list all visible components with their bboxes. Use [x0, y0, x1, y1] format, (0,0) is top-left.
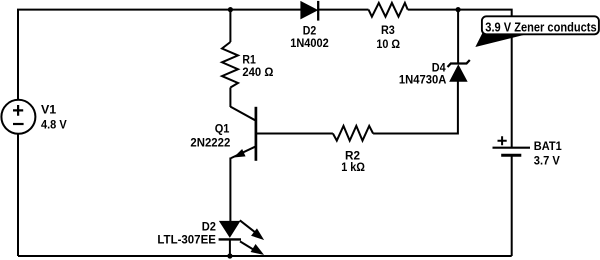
node junction top zener	[456, 7, 461, 12]
wire bottom bus	[18, 255, 512, 257]
diode D2	[290, 1, 329, 50]
svg-text:V1: V1	[41, 102, 56, 116]
callout 3.9 V Zener conducts	[476, 16, 599, 46]
voltage source V1	[1, 100, 67, 134]
LED D2	[157, 220, 263, 255]
svg-text:1N4002: 1N4002	[290, 36, 329, 50]
svg-text:4.8 V: 4.8 V	[41, 118, 67, 132]
transistor Q1	[190, 107, 256, 161]
zener diode D4	[399, 60, 470, 86]
wire top bus to zener D4	[457, 10, 459, 64]
node junction bottom LED	[227, 253, 232, 258]
svg-text:1 kΩ: 1 kΩ	[341, 160, 365, 174]
svg-text:Q1: Q1	[215, 122, 230, 136]
wire LED to bottom bus	[229, 239, 231, 256]
resistor R2	[333, 126, 373, 174]
svg-text:R3: R3	[381, 23, 395, 37]
wire Q1 base to R2	[256, 133, 333, 135]
svg-text:10 Ω: 10 Ω	[376, 37, 400, 51]
wire battery bottom	[511, 155, 513, 256]
wire between D2 and R3	[318, 9, 369, 11]
wire R1 to Q1 collector	[229, 88, 231, 108]
svg-text:1N4730A: 1N4730A	[399, 72, 447, 86]
svg-text:LTL-307EE: LTL-307EE	[157, 232, 216, 246]
svg-text:3.9 V Zener conducts: 3.9 V Zener conducts	[485, 19, 596, 34]
wire top-left L (left rail top + top bus to D2)	[18, 10, 301, 100]
svg-text:BAT1: BAT1	[534, 139, 562, 153]
wire R2 to zener bottom	[373, 81, 458, 134]
svg-text:240 Ω: 240 Ω	[242, 65, 273, 79]
wire V1 bottom to bottom-left corner	[17, 134, 19, 256]
wire R3 to battery top corner	[408, 10, 512, 148]
wire Q1 emitter to LED	[229, 158, 231, 223]
battery BAT1	[493, 136, 562, 167]
resistor R3	[369, 3, 408, 51]
svg-text:2N2222: 2N2222	[190, 135, 230, 149]
resistor R1	[222, 42, 274, 88]
wire top bus to R1	[229, 10, 231, 42]
svg-text:3.7 V: 3.7 V	[534, 153, 561, 167]
node junction top R1	[228, 7, 233, 12]
